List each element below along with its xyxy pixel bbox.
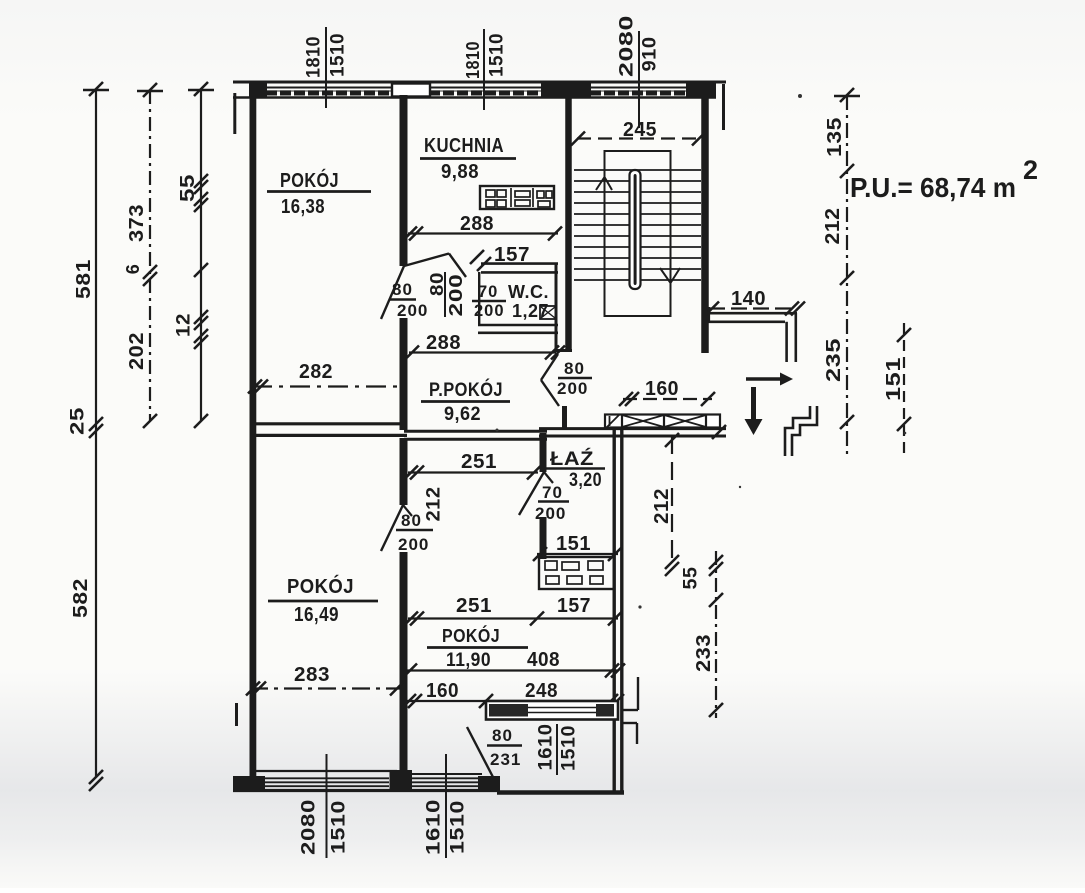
svg-text:P.POKÓJ: P.POKÓJ xyxy=(429,379,503,401)
svg-text:160: 160 xyxy=(645,378,679,400)
svg-text:288: 288 xyxy=(426,332,461,354)
svg-text:9,62: 9,62 xyxy=(444,404,481,425)
svg-text:1510: 1510 xyxy=(448,800,469,854)
svg-text:251: 251 xyxy=(456,595,492,617)
svg-text:200: 200 xyxy=(446,274,466,317)
svg-text:151: 151 xyxy=(556,533,591,555)
svg-text:25: 25 xyxy=(68,407,89,435)
svg-text:212: 212 xyxy=(651,488,673,524)
svg-text:2080: 2080 xyxy=(299,799,320,855)
svg-text:251: 251 xyxy=(461,451,497,473)
svg-text:55: 55 xyxy=(177,174,199,202)
svg-text:160: 160 xyxy=(426,680,459,702)
svg-text:16,49: 16,49 xyxy=(294,604,339,626)
svg-text:231: 231 xyxy=(490,750,521,769)
svg-text:2080: 2080 xyxy=(617,15,638,77)
svg-text:POKÓJ: POKÓJ xyxy=(280,168,339,192)
svg-text:6: 6 xyxy=(123,264,143,275)
svg-text:200: 200 xyxy=(398,535,429,554)
svg-text:140: 140 xyxy=(731,288,766,310)
svg-text:1510: 1510 xyxy=(559,725,580,771)
svg-text:200: 200 xyxy=(535,504,566,523)
svg-text:151: 151 xyxy=(883,357,905,401)
svg-text:1810: 1810 xyxy=(463,41,483,79)
svg-text:582: 582 xyxy=(70,578,92,618)
svg-text:9,88: 9,88 xyxy=(441,161,479,183)
svg-text:16,38: 16,38 xyxy=(281,196,325,218)
svg-text:80: 80 xyxy=(401,511,422,530)
svg-text:70: 70 xyxy=(542,483,563,502)
svg-text:ŁAŹ: ŁAŹ xyxy=(550,448,594,470)
svg-text:1810: 1810 xyxy=(304,36,325,78)
svg-text:200: 200 xyxy=(474,302,505,320)
svg-text:80: 80 xyxy=(392,280,413,299)
svg-text:12: 12 xyxy=(174,313,195,337)
svg-text:235: 235 xyxy=(823,338,845,382)
svg-text:200: 200 xyxy=(557,379,588,398)
svg-text:70: 70 xyxy=(478,283,498,301)
svg-text:157: 157 xyxy=(557,595,591,617)
svg-text:212: 212 xyxy=(424,487,445,522)
svg-text:P.U.= 68,74 m: P.U.= 68,74 m xyxy=(850,172,1016,203)
svg-text:11,90: 11,90 xyxy=(446,650,491,671)
svg-text:233: 233 xyxy=(693,634,715,672)
svg-text:1510: 1510 xyxy=(487,33,508,77)
svg-text:1,27: 1,27 xyxy=(512,301,549,321)
svg-text:2: 2 xyxy=(1023,155,1038,185)
svg-text:212: 212 xyxy=(822,208,844,245)
svg-text:1610: 1610 xyxy=(424,799,445,855)
svg-text:3,20: 3,20 xyxy=(569,470,602,491)
svg-text:135: 135 xyxy=(824,117,846,157)
svg-text:283: 283 xyxy=(294,664,330,686)
svg-text:KUCHNIA: KUCHNIA xyxy=(424,135,504,157)
svg-text:157: 157 xyxy=(494,244,530,266)
svg-text:202: 202 xyxy=(126,332,148,370)
svg-text:200: 200 xyxy=(397,301,428,320)
svg-text:373: 373 xyxy=(126,204,148,242)
svg-text:80: 80 xyxy=(427,272,447,296)
svg-text:408: 408 xyxy=(527,649,560,671)
svg-text:1510: 1510 xyxy=(328,33,349,77)
svg-text:80: 80 xyxy=(564,359,585,378)
svg-text:288: 288 xyxy=(460,213,494,235)
svg-text:282: 282 xyxy=(299,361,333,383)
svg-text:W.C.: W.C. xyxy=(508,282,549,302)
svg-text:POKÓJ: POKÓJ xyxy=(442,625,500,646)
svg-text:1510: 1510 xyxy=(329,800,350,854)
svg-text:910: 910 xyxy=(640,37,661,72)
svg-text:1610: 1610 xyxy=(536,724,557,771)
svg-text:80: 80 xyxy=(492,726,513,745)
svg-text:248: 248 xyxy=(525,680,558,702)
svg-text:55: 55 xyxy=(681,567,702,590)
svg-text:POKÓJ: POKÓJ xyxy=(287,574,354,598)
svg-text:581: 581 xyxy=(73,259,95,299)
